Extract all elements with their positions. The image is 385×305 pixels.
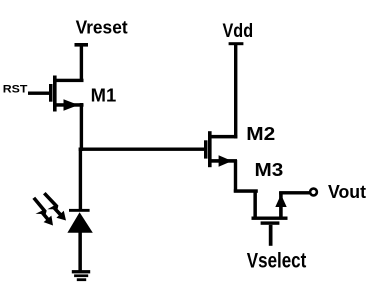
wire: sense node to M2 gate (horizontal) [79, 148, 205, 151]
svg-text:M3: M3 [255, 159, 284, 180]
transistor M1: channel bar [53, 76, 57, 112]
svg-text:Vselect: Vselect [247, 248, 306, 272]
power terminal Vreset (supply bar) [75, 43, 89, 47]
transistor M2: source arrow [219, 155, 232, 167]
transistor M1: source arrow [64, 99, 79, 111]
wire: M2 source down to M3 (vertical) [234, 160, 237, 193]
transistor M1: source stub [57, 103, 84, 107]
photodiode D1: anode triangle [67, 212, 92, 233]
wire: M3 drain to Vout terminal [279, 191, 309, 194]
wire: M2 drain horizontal [212, 135, 238, 139]
wire: M3 left horizontal [234, 189, 258, 193]
wire: sense node down to photodiode [79, 148, 82, 211]
photodiode D1: cathode bar [69, 209, 90, 212]
transistor M3: drain arrow (pointing up) [275, 194, 286, 207]
transistor M3: channel bar [252, 217, 288, 220]
svg-text:M2: M2 [246, 123, 275, 144]
wire: Vdd stem down to M2 drain corner [234, 44, 237, 139]
transistor M3: drain leg up from channel [279, 192, 283, 217]
power terminal Vdd (supply bar) [229, 42, 244, 45]
transistor M2: channel bar [208, 131, 212, 167]
wire: M1 source down to sense node [80, 103, 83, 151]
wire: M3 gate down to Vselect [269, 225, 273, 246]
wire: M1 drain horizontal [57, 79, 84, 82]
svg-text:RST: RST [3, 84, 28, 96]
svg-text:Vout: Vout [328, 182, 366, 202]
wire: RST to M1 gate [28, 92, 50, 95]
wire: M3 left leg down to channel [253, 190, 257, 218]
transistor M2: source stub [212, 159, 238, 163]
transistor M3: gate bar [261, 221, 280, 224]
terminal Vout (open circle) [310, 189, 317, 196]
ground symbol [72, 270, 90, 281]
transistor M2: gate bar [204, 140, 208, 158]
svg-text:Vdd: Vdd [223, 20, 254, 42]
photon arrow 1 [43, 192, 66, 221]
wire: photodiode anode down to ground [78, 232, 82, 271]
svg-text:Vreset: Vreset [76, 17, 128, 37]
transistor M1: gate bar [49, 84, 53, 102]
photon arrow 2 [32, 197, 53, 226]
wire: Vreset stem down to M1 drain corner [80, 45, 83, 82]
svg-text:M1: M1 [91, 85, 117, 105]
